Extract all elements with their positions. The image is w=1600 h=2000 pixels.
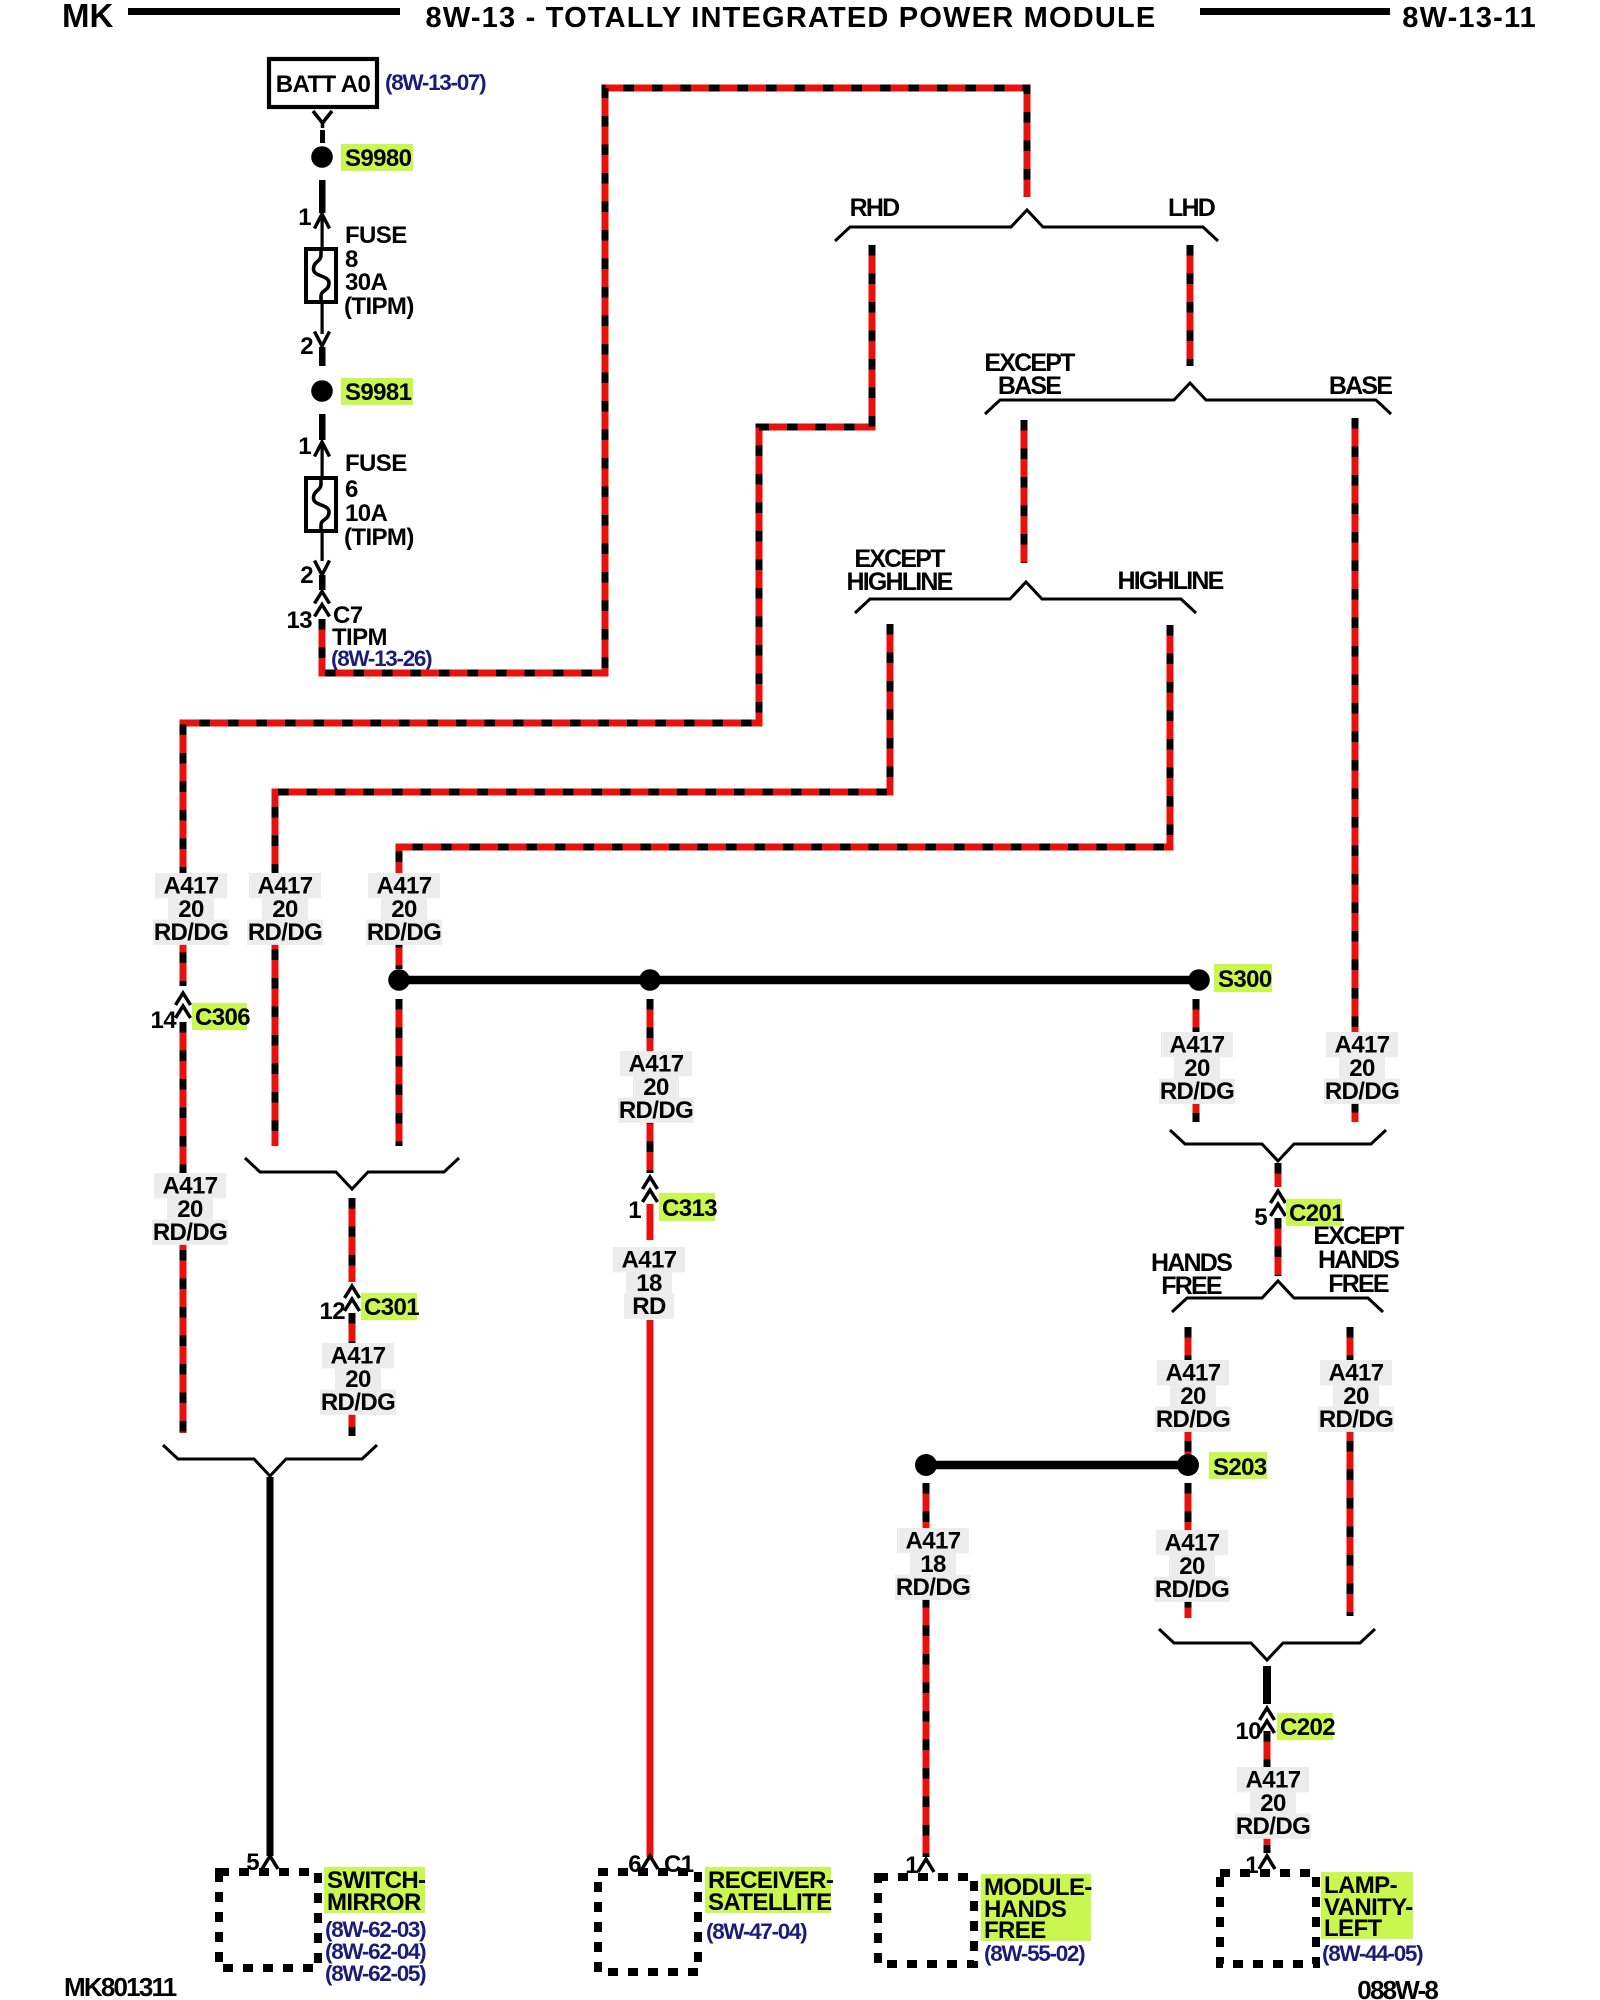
wire RHD branch down-left to column 1 — [183, 245, 872, 986]
fuse F6 10A (TIPM) — [306, 478, 336, 531]
svg-text:MK: MK — [62, 0, 113, 34]
wire EXCEPT BASE branch — [1021, 420, 1028, 563]
svg-text:HIGHLINE: HIGHLINE — [1117, 567, 1223, 595]
wire label A417 20 RD/DG column 3 — [368, 873, 440, 898]
svg-text:FREE: FREE — [984, 1917, 1046, 1944]
svg-text:(8W-55-02): (8W-55-02) — [984, 1941, 1085, 1966]
svg-text:RD/DG: RD/DG — [248, 919, 322, 946]
svg-text:SATELLITE: SATELLITE — [708, 1889, 832, 1916]
wire label A417 20 RD/DG BASE column — [1326, 1032, 1398, 1057]
svg-text:1: 1 — [905, 1852, 918, 1879]
brace EXCEPT BASE / BASE split — [985, 383, 1391, 414]
svg-text:FREE: FREE — [1161, 1272, 1222, 1300]
wire HIGHLINE branch down-left to column 3 and S300 — [399, 625, 1170, 969]
connector C201 pin 5 — [1268, 1187, 1288, 1217]
component box LAMP-VANITY-LEFT — [1220, 1873, 1316, 1964]
battery feed box BATT A0 — [269, 59, 377, 107]
black wire stub into C202 — [1263, 1666, 1271, 1707]
wire label A417 20 RD/DG below S300 middle leg — [620, 1051, 692, 1076]
pin 2 of fuse 6 — [321, 531, 324, 561]
svg-text:RD/DG: RD/DG — [896, 1574, 970, 1601]
svg-text:LEFT: LEFT — [1324, 1915, 1383, 1942]
svg-text:8W-13 - TOTALLY INTEGRATED POW: 8W-13 - TOTALLY INTEGRATED POWER MODULE — [426, 2, 1157, 34]
svg-text:C313: C313 — [662, 1195, 717, 1222]
label LAMP-VANITY-LEFT — [1321, 1872, 1413, 1939]
svg-text:RD/DG: RD/DG — [1160, 1078, 1234, 1105]
svg-text:088W-8: 088W-8 — [1357, 1975, 1438, 2000]
brace merge above C301 — [245, 1158, 459, 1189]
svg-text:1: 1 — [628, 1197, 641, 1224]
wire BASE branch down to C201 brace — [1352, 418, 1359, 1122]
svg-text:(TIPM): (TIPM) — [344, 293, 414, 320]
svg-text:FUSE: FUSE — [345, 222, 407, 249]
splice S300 bus bar — [399, 976, 1199, 985]
wire label A417 18 RD — [613, 1247, 685, 1272]
wire from S9981 to fuse 6 — [319, 414, 326, 440]
wire into C301 — [349, 1198, 356, 1284]
brace merge above C201 — [1170, 1130, 1386, 1161]
svg-text:BATT A0: BATT A0 — [276, 71, 371, 98]
label S300 — [1214, 964, 1272, 992]
svg-text:BASE: BASE — [1329, 372, 1392, 400]
header rule right — [1200, 8, 1390, 15]
svg-text:8W-13-11: 8W-13-11 — [1402, 2, 1537, 34]
svg-text:LHD: LHD — [1168, 194, 1215, 222]
svg-text:1: 1 — [298, 204, 311, 231]
wire EXCEPT HIGHLINE branch down-left to column 2 — [275, 624, 890, 1146]
svg-text:RD/DG: RD/DG — [1155, 1576, 1229, 1603]
wire stub below battery connector — [320, 130, 325, 143]
svg-text:S9981: S9981 — [345, 379, 412, 406]
brace HANDS FREE / EXCEPT HANDS FREE split — [1172, 1281, 1383, 1312]
svg-text:RD/DG: RD/DG — [1236, 1813, 1310, 1840]
svg-text:(8W-13-26): (8W-13-26) — [331, 646, 432, 671]
brace EXCEPT HIGHLINE / HIGHLINE split — [855, 582, 1196, 613]
svg-text:C202: C202 — [1280, 1714, 1335, 1741]
component box MODULE-HANDS FREE — [878, 1877, 974, 1964]
label SWITCH-MIRROR — [324, 1867, 425, 1913]
svg-text:10: 10 — [1236, 1718, 1262, 1745]
wire label A417 20 RD/DG below C202 — [1237, 1767, 1309, 1792]
wire from S9980 to fuse 8 — [319, 180, 326, 213]
component box RECEIVER-SATELLITE — [598, 1872, 698, 1972]
wire label A417 20 RD/DG column 1 lower — [154, 1173, 226, 1198]
svg-text:RD/DG: RD/DG — [1319, 1406, 1393, 1433]
wire label A417 20 RD/DG below C301 — [322, 1343, 394, 1368]
connector C313 pin 1 — [640, 1173, 660, 1203]
wire below S203 left to module-hands free — [923, 1483, 930, 1857]
label MODULE-HANDS FREE — [981, 1874, 1091, 1941]
svg-text:C301: C301 — [364, 1294, 419, 1321]
svg-text:RHD: RHD — [850, 194, 900, 222]
wire label A417 20 RD/DG hands free — [1157, 1360, 1229, 1385]
svg-text:5: 5 — [246, 1849, 259, 1876]
wire column 1 below C306 — [180, 1022, 187, 1433]
svg-text:FUSE: FUSE — [345, 450, 407, 477]
svg-text:MIRROR: MIRROR — [327, 1889, 421, 1916]
svg-text:2: 2 — [300, 333, 313, 360]
svg-text:RD/DG: RD/DG — [1325, 1078, 1399, 1105]
fuse F8 30A (TIPM) — [306, 249, 336, 302]
brace RHD / LHD split — [835, 210, 1218, 241]
connector C306 pin 14 on column 1 — [173, 989, 193, 1019]
wire A417 18 RD solid down to satellite receiver — [647, 1204, 654, 1240]
wire below C301 — [349, 1313, 356, 1436]
svg-text:RD: RD — [632, 1293, 666, 1320]
wire A417 trunk from TIPM C7 up and over to RHD/LHD brace — [322, 88, 1027, 673]
svg-text:13: 13 — [287, 607, 313, 634]
component box SWITCH-MIRROR — [219, 1872, 318, 1968]
svg-text:BASE: BASE — [998, 372, 1061, 400]
svg-text:RD/DG: RD/DG — [1156, 1406, 1230, 1433]
wire label A417 20 RD/DG below S203 — [1156, 1530, 1228, 1555]
svg-text:30A: 30A — [345, 269, 387, 296]
wire below S300 left leg to C301 brace — [396, 999, 403, 1146]
svg-text:(8W-62-05): (8W-62-05) — [325, 1961, 426, 1986]
wire stub into C201 — [1275, 1163, 1282, 1190]
svg-text:S203: S203 — [1213, 1454, 1267, 1481]
svg-text:S300: S300 — [1218, 966, 1272, 993]
wire label A417 20 RD/DG column 2 — [249, 873, 321, 898]
black wire down to switch-mirror — [267, 1477, 274, 1856]
svg-text:(8W-13-07): (8W-13-07) — [385, 70, 486, 95]
svg-text:RD/DG: RD/DG — [367, 919, 441, 946]
svg-text:12: 12 — [320, 1298, 346, 1325]
svg-text:(TIPM): (TIPM) — [344, 524, 414, 551]
svg-text:6: 6 — [628, 1851, 641, 1878]
wire below S300 middle leg to C313 — [647, 999, 654, 1176]
svg-text:HIGHLINE: HIGHLINE — [846, 568, 952, 596]
svg-text:RD/DG: RD/DG — [154, 919, 228, 946]
wire label A417 20 RD/DG below S300 right leg — [1161, 1032, 1233, 1057]
svg-text:MK801311: MK801311 — [64, 1972, 177, 2000]
svg-text:RD/DG: RD/DG — [153, 1219, 227, 1246]
wire LHD branch — [1187, 245, 1194, 366]
pin 2 of fuse 8 — [321, 302, 324, 334]
wire below S203 right leg — [1185, 1483, 1192, 1618]
svg-text:RD/DG: RD/DG — [321, 1389, 395, 1416]
svg-text:(8W-47-04): (8W-47-04) — [706, 1919, 807, 1944]
label RECEIVER-SATELLITE — [705, 1867, 831, 1913]
brace merge above switch-mirror — [163, 1445, 377, 1476]
wire below C202 — [1264, 1731, 1271, 1853]
svg-text:C306: C306 — [195, 1004, 250, 1031]
connector symbol below BATT A0 — [313, 111, 332, 128]
splice S9981 — [311, 380, 333, 402]
wire label A417 20 RD/DG except hands free — [1320, 1360, 1392, 1385]
svg-text:1: 1 — [298, 433, 311, 460]
header rule left — [128, 8, 400, 15]
wire EXCEPT HANDS FREE branch — [1347, 1327, 1354, 1616]
wire label A417 18 RD/DG — [897, 1528, 969, 1553]
svg-text:C1: C1 — [664, 1851, 694, 1878]
svg-text:FREE: FREE — [1328, 1270, 1389, 1298]
wire HANDS FREE branch to S203 — [1185, 1327, 1192, 1466]
svg-text:6: 6 — [345, 476, 358, 503]
svg-text:14: 14 — [151, 1007, 178, 1034]
svg-text:10A: 10A — [345, 500, 387, 527]
svg-text:(8W-44-05): (8W-44-05) — [1322, 1941, 1423, 1966]
splice S203 bus bar — [926, 1461, 1188, 1470]
svg-text:5: 5 — [1254, 1204, 1267, 1231]
wire label A417 20 RD/DG column 1 — [155, 873, 227, 898]
label S203 — [1209, 1452, 1267, 1479]
connector C202 pin 10 — [1257, 1704, 1277, 1734]
svg-text:2: 2 — [300, 562, 313, 589]
brace merge above C202 — [1159, 1629, 1375, 1660]
wire below S300 right leg to C201 brace — [1193, 999, 1200, 1122]
svg-text:S9980: S9980 — [345, 145, 412, 172]
svg-text:RD/DG: RD/DG — [619, 1097, 693, 1124]
connector C301 pin 12 — [342, 1282, 362, 1312]
wire below C201 — [1275, 1218, 1282, 1276]
splice S9980 — [311, 146, 333, 168]
connector C7 pin 13 TIPM — [315, 592, 330, 604]
